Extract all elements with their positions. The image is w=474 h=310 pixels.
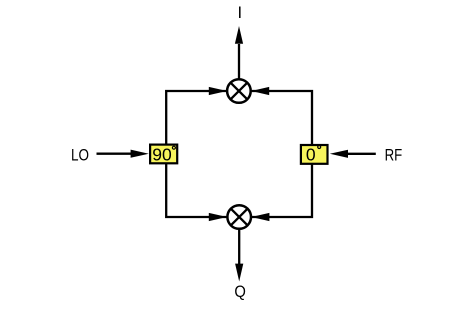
arrowhead LO into 90deg box (131, 150, 149, 158)
arrowhead into bottom mixer left (209, 213, 227, 221)
arrowhead into top mixer left (209, 87, 227, 95)
svg-text:RF: RF (385, 146, 403, 165)
wire I output vertical (238, 44, 240, 79)
mixer bottom (circle with X) (227, 205, 251, 229)
mixer top (circle with X) (227, 79, 251, 103)
svg-text:Q: Q (234, 282, 246, 301)
svg-text:LO: LO (71, 145, 89, 164)
svg-text:0: 0 (306, 145, 316, 165)
arrowhead to I (235, 26, 243, 44)
svg-text:I: I (238, 4, 243, 22)
arrowhead into bottom mixer right (251, 213, 269, 221)
arrowhead to Q (235, 264, 243, 282)
phase shifter 90deg box (150, 145, 177, 165)
arrowhead RF into 0deg box (330, 150, 348, 158)
phase shifter 0deg box (301, 145, 328, 165)
svg-text:90: 90 (152, 145, 172, 165)
wire square loop (166, 91, 312, 217)
wire RF input (347, 153, 376, 155)
wire LO input (97, 153, 132, 155)
wire Q output vertical (238, 229, 240, 264)
arrowhead into top mixer right (251, 87, 269, 95)
